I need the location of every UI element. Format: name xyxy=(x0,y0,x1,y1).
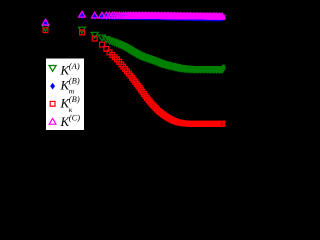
series K^(A): green open down-triangles xyxy=(42,26,230,73)
series K_m^(B): blue filled diamonds xyxy=(43,13,229,27)
legend marker magenta up-triangle xyxy=(49,118,56,124)
series K^(C): magenta open up-triangles xyxy=(42,11,230,25)
legend box xyxy=(46,58,85,131)
svg-text:(B): (B) xyxy=(69,76,80,86)
series K_kappa^(B): red open squares xyxy=(43,28,229,126)
legend label K_m^(B) xyxy=(60,76,80,96)
legend label K_kappa^(B) xyxy=(60,94,80,114)
plot background xyxy=(0,0,232,171)
svg-text:(A): (A) xyxy=(69,61,80,71)
legend label K^(A) xyxy=(60,61,80,78)
legend label K^(C) xyxy=(60,112,81,129)
svg-text:(B): (B) xyxy=(69,94,80,104)
legend marker red square xyxy=(50,101,55,106)
svg-text:(C): (C) xyxy=(69,112,81,122)
legend marker green down-triangle xyxy=(49,66,56,72)
legend marker blue diamond xyxy=(50,83,55,90)
